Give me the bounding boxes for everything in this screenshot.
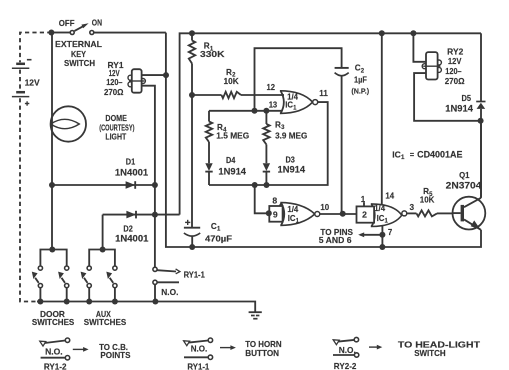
svg-text:OFF: OFF [59, 19, 75, 28]
svg-text:N.O.: N.O. [45, 347, 63, 356]
svg-text:TO HORN: TO HORN [245, 340, 281, 349]
svg-text:2: 2 [362, 210, 367, 220]
svg-text:1: 1 [401, 154, 405, 161]
svg-text:DOME: DOME [105, 114, 127, 123]
svg-text:N.O.: N.O. [191, 345, 208, 354]
svg-text:7: 7 [388, 227, 393, 237]
svg-text:IC: IC [288, 214, 296, 223]
svg-text:RY2: RY2 [447, 48, 464, 57]
svg-text:N.O.: N.O. [161, 288, 178, 297]
svg-text:1µF: 1µF [354, 75, 367, 84]
svg-text:D1: D1 [126, 158, 136, 167]
svg-text:1/4: 1/4 [287, 205, 298, 214]
svg-text:330K: 330K [200, 50, 225, 59]
svg-text:IC: IC [377, 214, 385, 223]
svg-text:2N3704: 2N3704 [446, 181, 482, 191]
svg-text:12V: 12V [25, 79, 41, 88]
svg-text:10K: 10K [420, 195, 435, 204]
svg-text:LIGHT: LIGHT [105, 132, 126, 141]
svg-text:270Ω: 270Ω [104, 88, 124, 97]
svg-text:10K: 10K [224, 77, 239, 86]
svg-text:1/4: 1/4 [374, 204, 385, 213]
svg-text:3.9 MEG: 3.9 MEG [275, 131, 307, 140]
svg-text:N.O.: N.O. [339, 346, 356, 355]
svg-text:KEY: KEY [71, 50, 86, 59]
svg-text:5 AND 6: 5 AND 6 [319, 236, 352, 245]
svg-text:POINTS: POINTS [100, 351, 131, 360]
svg-text:14: 14 [385, 192, 394, 201]
svg-text:RY1-1: RY1-1 [184, 271, 206, 280]
svg-text:D2: D2 [123, 224, 133, 233]
svg-text:D4: D4 [226, 156, 236, 165]
svg-text:9: 9 [273, 210, 278, 220]
svg-text:RY1-1: RY1-1 [187, 363, 209, 370]
svg-text:270Ω: 270Ω [445, 77, 465, 86]
svg-text:TO HEAD-LIGHT: TO HEAD-LIGHT [398, 340, 480, 349]
svg-text:1: 1 [361, 194, 366, 204]
svg-text:10: 10 [320, 203, 329, 212]
svg-text:D3: D3 [286, 156, 296, 165]
svg-text:=: = [410, 150, 415, 159]
svg-text:120–: 120– [106, 78, 123, 87]
svg-text:EXTERNAL: EXTERNAL [55, 40, 102, 49]
svg-text:SWITCH: SWITCH [414, 349, 445, 358]
svg-text:CD4001AE: CD4001AE [417, 149, 462, 159]
svg-text:SWITCHES: SWITCHES [84, 318, 127, 327]
svg-text:470µF: 470µF [205, 234, 232, 243]
svg-text:IC: IC [392, 149, 401, 159]
svg-text:13: 13 [269, 100, 278, 109]
svg-text:11: 11 [319, 89, 328, 98]
svg-text:RY1-2: RY1-2 [44, 363, 67, 370]
svg-text:(COURTESY): (COURTESY) [99, 123, 134, 132]
svg-text:1N4001: 1N4001 [115, 168, 148, 178]
svg-text:IC: IC [285, 101, 293, 110]
svg-text:Q1: Q1 [459, 171, 470, 180]
svg-text:1.5 MEG: 1.5 MEG [216, 131, 249, 140]
svg-text:3: 3 [410, 202, 415, 212]
svg-text:12V: 12V [448, 57, 462, 66]
svg-text:1N914: 1N914 [445, 104, 473, 114]
svg-text:SWITCHES: SWITCHES [32, 318, 75, 327]
svg-text:ON: ON [92, 18, 102, 27]
svg-text:SWITCH: SWITCH [64, 59, 95, 68]
svg-text:RY2-2: RY2-2 [334, 362, 357, 370]
svg-text:1N914: 1N914 [278, 164, 306, 174]
svg-text:BUTTON: BUTTON [245, 349, 279, 358]
svg-text:(N.P.): (N.P.) [351, 87, 369, 96]
svg-text:8: 8 [272, 196, 277, 206]
svg-text:12: 12 [267, 83, 276, 92]
svg-text:1N4001: 1N4001 [115, 233, 148, 243]
svg-text:120–: 120– [445, 67, 462, 76]
svg-text:D5: D5 [462, 94, 472, 103]
svg-text:12V: 12V [109, 69, 121, 78]
svg-text:1N914: 1N914 [218, 166, 246, 176]
